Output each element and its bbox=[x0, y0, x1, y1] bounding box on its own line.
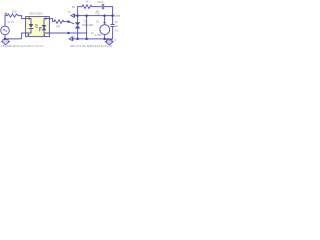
svg-text:10n: 10n bbox=[95, 11, 100, 14]
svg-text:T12: T12 bbox=[83, 21, 88, 24]
svg-text:B1: B1 bbox=[72, 5, 76, 9]
svg-text:0.7E6: 0.7E6 bbox=[95, 33, 102, 37]
svg-text:MOC3021: MOC3021 bbox=[30, 11, 43, 15]
svg-text:W01 rms the SCRs fired by the: W01 rms the SCRs fired by the tw bbox=[70, 44, 113, 48]
svg-text:V1 10: V1 10 bbox=[7, 21, 14, 24]
svg-text:Load: Load bbox=[115, 14, 120, 17]
svg-text:150: 150 bbox=[12, 9, 17, 13]
svg-text:X1: X1 bbox=[96, 19, 100, 23]
svg-text:2E: 2E bbox=[115, 24, 118, 28]
svg-text:FIGURE 25.10 (a) A 120 V rms: FIGURE 25.10 (a) A 120 V rms 17 bbox=[1, 44, 44, 48]
svg-text:0.1uF: 0.1uF bbox=[97, 0, 104, 4]
svg-text:470: 470 bbox=[56, 26, 61, 29]
svg-text:T1: T1 bbox=[67, 10, 71, 14]
svg-text:W1: W1 bbox=[71, 35, 75, 38]
